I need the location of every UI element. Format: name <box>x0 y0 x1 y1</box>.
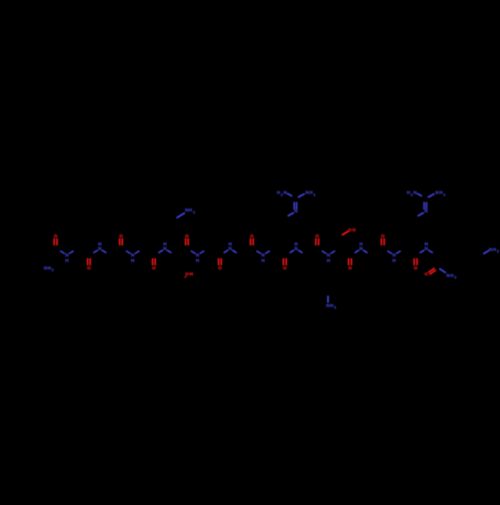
svg-text:O: O <box>54 234 58 239</box>
svg-text:2: 2 <box>497 250 499 254</box>
svg-text:O: O <box>185 234 189 239</box>
lysine side chain NH2 (far right) <box>484 251 489 254</box>
svg-text:O: O <box>381 234 385 239</box>
svg-text:2: 2 <box>193 210 195 214</box>
svg-text:O: O <box>283 265 287 270</box>
svg-text:2: 2 <box>313 193 315 197</box>
svg-text:2: 2 <box>443 193 445 197</box>
svg-text:O: O <box>119 234 123 239</box>
lysine side chain NH2 (bottom) <box>327 297 329 303</box>
svg-text:O: O <box>152 265 156 270</box>
svg-text:O: O <box>218 265 222 270</box>
svg-text:O: O <box>87 265 91 270</box>
svg-text:O: O <box>425 272 429 277</box>
svg-text:O: O <box>315 234 319 239</box>
svg-text:2: 2 <box>334 306 336 310</box>
svg-text:O: O <box>250 234 254 239</box>
lysine side chain NH2 (top left) <box>177 213 184 217</box>
svg-text:O: O <box>414 265 418 270</box>
svg-text:2: 2 <box>52 268 54 272</box>
side chain OH (above backbone) <box>343 231 349 234</box>
svg-text:2: 2 <box>454 276 456 280</box>
svg-text:O: O <box>348 265 352 270</box>
